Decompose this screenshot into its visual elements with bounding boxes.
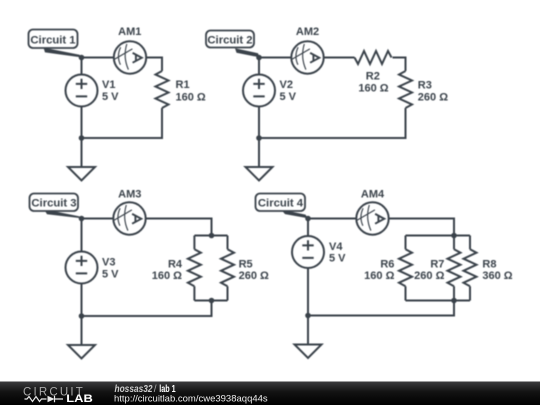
svg-text:Circuit 4: Circuit 4 bbox=[258, 197, 304, 209]
svg-text:R8: R8 bbox=[482, 258, 496, 270]
svg-text:R4: R4 bbox=[168, 258, 183, 270]
svg-text:R3: R3 bbox=[418, 79, 432, 91]
svg-text:160 Ω: 160 Ω bbox=[364, 270, 394, 282]
svg-text:160 Ω: 160 Ω bbox=[152, 270, 182, 282]
svg-text:260 Ω: 260 Ω bbox=[418, 91, 448, 103]
svg-text:AM3: AM3 bbox=[118, 188, 141, 200]
svg-text:LAB: LAB bbox=[66, 393, 93, 405]
svg-text:5 V: 5 V bbox=[102, 91, 119, 103]
svg-text:V1: V1 bbox=[102, 79, 115, 91]
svg-text:Circuit 2: Circuit 2 bbox=[207, 35, 252, 47]
svg-text:AM1: AM1 bbox=[118, 26, 141, 38]
svg-text:R7: R7 bbox=[430, 258, 444, 270]
svg-text:360 Ω: 360 Ω bbox=[482, 270, 512, 282]
svg-text:260 Ω: 260 Ω bbox=[239, 270, 269, 282]
svg-text:Circuit 1: Circuit 1 bbox=[30, 35, 75, 47]
svg-text:5 V: 5 V bbox=[329, 253, 346, 265]
svg-text:5 V: 5 V bbox=[102, 268, 119, 280]
svg-text:AM4: AM4 bbox=[361, 188, 385, 200]
svg-text:AM2: AM2 bbox=[296, 26, 319, 38]
svg-text:V3: V3 bbox=[102, 257, 115, 269]
svg-text:R5: R5 bbox=[239, 258, 253, 270]
svg-text:R1: R1 bbox=[176, 79, 190, 91]
svg-text:260 Ω: 260 Ω bbox=[414, 270, 444, 282]
svg-text:R2: R2 bbox=[366, 71, 380, 83]
svg-text:160 Ω: 160 Ω bbox=[358, 83, 388, 95]
svg-text:Circuit 3: Circuit 3 bbox=[31, 197, 76, 209]
svg-text:V2: V2 bbox=[280, 79, 293, 91]
svg-text:160 Ω: 160 Ω bbox=[176, 91, 206, 103]
svg-text:V4: V4 bbox=[329, 241, 343, 253]
svg-text:R6: R6 bbox=[380, 258, 394, 270]
svg-text:5 V: 5 V bbox=[280, 91, 297, 103]
svg-text:http://circuitlab.com/cwe3938a: http://circuitlab.com/cwe3938aqq44s bbox=[114, 394, 268, 405]
